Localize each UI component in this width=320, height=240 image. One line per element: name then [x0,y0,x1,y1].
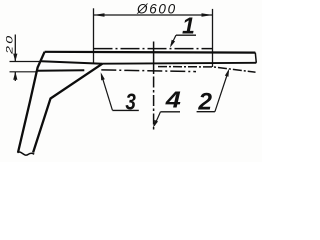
dimension Ø600 dimension line [94,14,213,16]
extension line left (disc left edge) [93,8,95,63]
knife-2 trace dash-dot line (item 3 target) [101,70,196,72]
leg bottom break line [18,152,35,155]
svg-text:4: 4 [165,87,181,113]
svg-text:3: 3 [125,90,136,115]
dimension 20 lower dimension line with up arrowhead [14,72,16,81]
label 4 underline [161,111,181,113]
arm bottom edge [102,62,256,65]
label 2 underline [197,111,215,113]
knife top edge [42,61,103,63]
dimension Ø600 left arrowhead [94,13,105,17]
label 4 leader with arrowhead [154,112,160,126]
dimension 20 upper extension line [10,61,42,63]
dimension Ø600 right arrowhead [202,13,213,17]
svg-text:1: 1 [182,13,195,39]
svg-text:2: 2 [197,89,212,116]
knife-2 trace dash-dot line (item 2 target) [158,67,256,73]
dimension 20 lower extension line [10,71,38,73]
label 2 leader with arrowhead [215,71,229,112]
svg-text:Ø600: Ø600 [136,2,177,17]
svg-text:20: 20 [4,34,15,56]
leg front edge [18,52,45,153]
extension line right (disc right edge) [212,9,214,67]
label 1 underline [176,34,196,36]
arm top edge [45,51,256,54]
leg rear edge [33,64,102,153]
arm right end cap [254,53,257,63]
label 3 leader with arrowhead [101,75,112,111]
knife bottom edge [37,69,84,72]
label 1 leader with arrowhead [171,35,176,45]
disc trace dash-dot line (Ø600 disc edge-on) [94,48,213,50]
dimension 20 upper dimension line with down arrowhead [14,35,16,62]
vertical centerline (axis, item 4) [153,42,155,75]
label 3 underline [112,109,138,111]
